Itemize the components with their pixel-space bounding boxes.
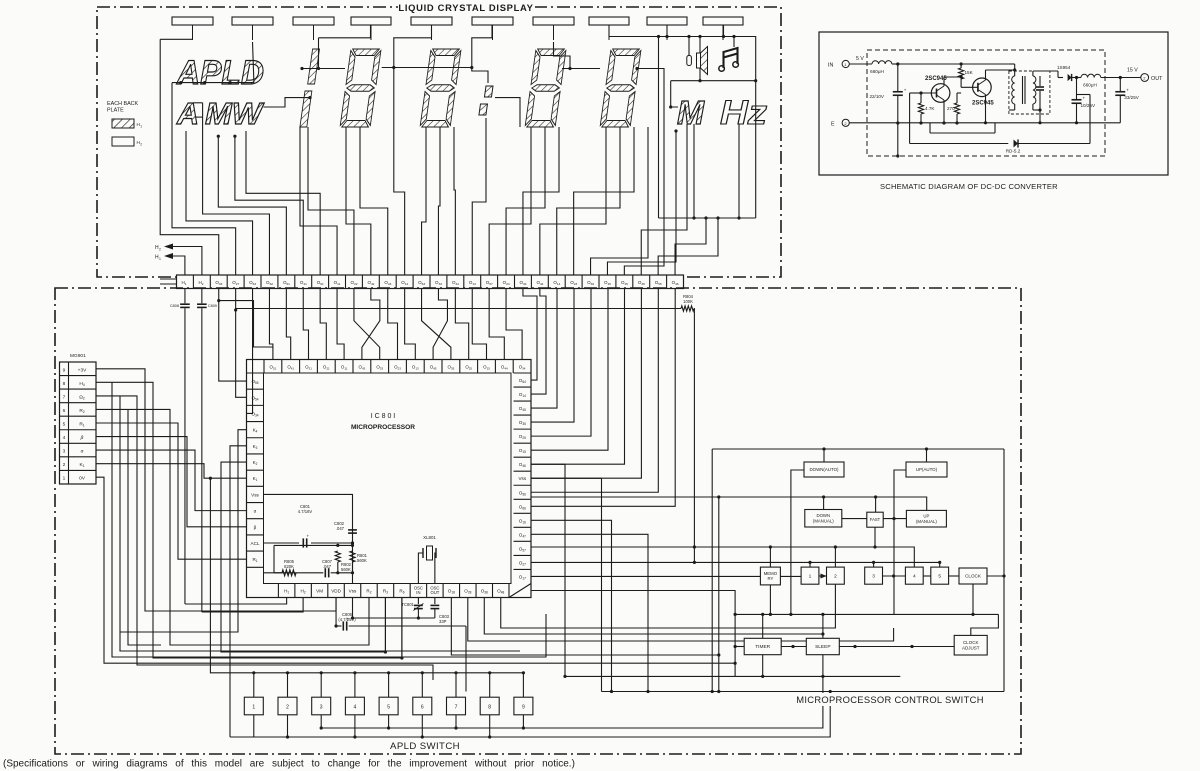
switch SLEEP [806, 638, 839, 654]
wire APLD bottom stub [455, 715, 457, 728]
switch FAST [867, 512, 883, 527]
pin row cell divider [260, 275, 262, 289]
backplate electrode 6 [472, 17, 513, 25]
svg-text:β: β [80, 435, 84, 441]
wire O-row to IC top pin [506, 289, 522, 360]
wire ACL to C801 [264, 542, 300, 544]
IC bottom pin divider [409, 584, 411, 598]
wire electrode 2 stem to APLD bus [253, 42, 254, 83]
svg-text:1: 1 [159, 257, 161, 261]
wire C806 rail drop [465, 626, 467, 692]
wire feedback join [1077, 94, 1091, 96]
wire C1 to bottom rail [897, 96, 899, 124]
svg-text:2: 2 [63, 462, 66, 468]
wire alpha feed [96, 450, 247, 511]
wire SLEEP bottom drop [822, 655, 824, 677]
wire preset top stub [769, 547, 771, 567]
junction [717, 495, 720, 498]
svg-text:22/10V: 22/10V [869, 94, 884, 99]
wire resistor bottoms [337, 562, 339, 573]
svg-text:RD-5.2: RD-5.2 [1006, 149, 1021, 154]
speaker icon [697, 47, 708, 75]
junction [955, 121, 958, 124]
backplate electrode 3 [293, 17, 334, 25]
IC left pin divider [247, 453, 264, 455]
wire TIMER top stub [762, 614, 764, 638]
wire coil to node [892, 63, 898, 65]
junction [233, 135, 236, 138]
svg-text:XL801: XL801 [423, 535, 436, 540]
IC left pin divider [247, 469, 264, 471]
wire L2 to out node [1101, 77, 1121, 79]
wire rail to left col [264, 572, 283, 574]
svg-text:33/25V: 33/25V [1124, 95, 1139, 100]
wire lower loop [929, 123, 931, 133]
wire LCD fanout left cascade [235, 136, 303, 275]
wire main bus under pin row [236, 308, 681, 310]
wire B6 left extension [565, 675, 735, 677]
wire H4 feed [96, 382, 402, 658]
svg-text:4: 4 [354, 704, 357, 710]
wire preset top stub [939, 562, 941, 567]
wire CLOCK right link [987, 575, 1004, 577]
svg-text:+: + [1083, 96, 1086, 101]
wire APLD lower bus A [321, 676, 823, 728]
APLD switch bus [210, 478, 523, 673]
wire digit1 top gap [318, 38, 320, 69]
LCD display outer box [97, 7, 781, 277]
wire between-digit vertical to cell13 [394, 25, 432, 275]
wire diode to coil [1072, 77, 1081, 79]
IC right pin divider [514, 386, 532, 388]
junction [938, 561, 941, 564]
zener diode RD-5.2 feedback [909, 93, 911, 144]
svg-text:Vss: Vss [518, 476, 526, 481]
pin row cell divider [226, 275, 228, 289]
wire preset link 1-2 [819, 575, 827, 577]
wire digit5 bottom [557, 127, 620, 275]
junction [669, 105, 672, 108]
svg-text:Vss: Vss [251, 492, 259, 497]
junction [769, 545, 772, 548]
junction [822, 495, 825, 498]
wire O-row to IC top pin [455, 289, 468, 360]
pin row cell divider [666, 275, 668, 289]
IC bottom pin divider [508, 584, 510, 598]
svg-text:+: + [904, 88, 907, 93]
junction [320, 726, 323, 729]
wire R804 to drop [693, 309, 695, 563]
wire crossing pair B1 [422, 289, 451, 360]
wire O27 drop [235, 289, 237, 311]
svg-text:E: E [831, 122, 835, 128]
IC bottom pin divider [442, 584, 444, 598]
backplate electrode 8 [589, 17, 629, 25]
junction [716, 216, 719, 219]
svg-text:TIMER: TIMER [755, 644, 770, 650]
switch TIMER [744, 638, 781, 654]
wire electrode 1 stem route [160, 38, 192, 40]
svg-text:PLATE: PLATE [107, 108, 124, 114]
svg-text:15K: 15K [965, 70, 974, 75]
svg-text:7: 7 [63, 394, 66, 400]
junction [252, 671, 255, 674]
junction [217, 135, 220, 138]
svg-text:1: 1 [809, 573, 812, 579]
wire left branch down [273, 545, 275, 572]
wire digit4 bottom [506, 127, 545, 275]
APLD switch 1 [244, 697, 263, 715]
pin row cell divider [649, 275, 651, 289]
transformer primary winding [1012, 76, 1015, 104]
pin row cell divider [294, 275, 296, 289]
wire bus B7 [602, 691, 1005, 693]
svg-text:UP(AUTO): UP(AUTO) [916, 467, 938, 472]
wire APLD bottom stub [489, 715, 491, 737]
IC right pin divider [514, 372, 532, 374]
wire colon bottom [472, 118, 486, 275]
IC right pin divider [514, 568, 532, 570]
svg-text:DOWN: DOWN [816, 513, 830, 518]
svg-text:FAST: FAST [870, 517, 881, 522]
svg-text:2: 2 [286, 704, 289, 710]
svg-text:(Specifications or wiring diag: (Specifications or wiring diagrams of th… [3, 759, 575, 770]
IC top pin divider [494, 360, 496, 374]
junction [896, 62, 899, 65]
svg-text:2: 2 [140, 143, 142, 147]
wire digit joint 1-8 [302, 68, 345, 70]
wire IC right pin O16 long [531, 520, 612, 691]
svg-text:10/25V: 10/25V [1081, 103, 1096, 108]
svg-text:SLEEP: SLEEP [815, 644, 830, 650]
junction [657, 35, 660, 38]
capacitor C3 10/25V [1076, 78, 1078, 100]
wire O-row to IC top pin [489, 289, 504, 360]
IC right pin divider [514, 442, 532, 444]
junction [984, 121, 987, 124]
IC bottom pin divider [343, 584, 345, 598]
music note icon [719, 48, 739, 71]
junction [1119, 76, 1122, 79]
junction [286, 671, 289, 674]
wire O-row to IC right pin [531, 289, 608, 451]
backplate electrode 7 [533, 17, 574, 25]
svg-text:9: 9 [522, 704, 525, 710]
wire Q2 emitter down to rail [985, 95, 987, 123]
wire speaker stem [699, 37, 701, 54]
wire SLEEP right to CLOCK ADJUST [839, 646, 954, 648]
pin row cell divider [598, 275, 600, 289]
IC right pin divider [514, 456, 532, 458]
IC left pin divider [247, 518, 264, 520]
wire DOWN(MANUAL) to FAST [842, 518, 867, 520]
wire O-row to IC right pin [531, 289, 658, 493]
junction [1038, 108, 1041, 111]
junction [942, 121, 945, 124]
svg-text:UP: UP [923, 514, 929, 519]
wire LCD fanout left cascade [160, 39, 219, 275]
svg-text:270: 270 [947, 106, 955, 111]
wire nest long bottom a [112, 382, 546, 657]
wire DOWN(AUTO) top stub [823, 449, 825, 462]
junction [960, 75, 963, 78]
IC right pin divider [514, 526, 532, 528]
wire Vss left pin rail [264, 494, 353, 583]
junction [754, 79, 757, 82]
pin row cell divider [328, 275, 330, 289]
wire LCD fanout left cascade [203, 103, 270, 275]
wire B2 drop at left [718, 497, 720, 692]
junction [209, 477, 212, 480]
svg-text:5: 5 [938, 573, 941, 579]
junction [1075, 121, 1078, 124]
junction [960, 62, 963, 65]
connector row divider [60, 469, 97, 471]
wire icon bus top [609, 25, 756, 218]
wire APLD bottom stub [522, 715, 524, 728]
IC right pin divider [514, 540, 532, 542]
wire crossing pair B2 [433, 289, 447, 360]
APLD switch 5 [379, 697, 398, 715]
IC left pin divider [247, 502, 264, 504]
wire O-row to IC right pin [531, 289, 641, 479]
wire UP(AUTO) top stub [926, 449, 928, 462]
IC bottom pin divider [360, 584, 362, 598]
wire O-row to IC right pin [531, 289, 591, 437]
wire APLD top stub [455, 673, 457, 697]
IC top pin divider [263, 360, 265, 374]
wire Q1 emitter to rail [943, 100, 945, 123]
svg-text:TC801: TC801 [401, 602, 414, 607]
svg-text:2: 2 [834, 573, 837, 579]
wire CLOCK ADJUST top stub [971, 614, 999, 635]
wire R2 feed [96, 409, 369, 645]
junction [229, 81, 232, 84]
svg-text:EACH BACK: EACH BACK [107, 101, 139, 107]
junction [698, 79, 701, 82]
wire note stem [733, 37, 735, 48]
junction node [351, 544, 354, 547]
DC-DC inner dashed box [867, 50, 1105, 156]
junction [919, 121, 922, 124]
wire IC Vss line to riser [531, 477, 602, 479]
IC top pin divider [423, 360, 425, 374]
wire long preset line from IC [531, 575, 760, 577]
wire TIMER left link [735, 646, 744, 648]
wire speaker loop [671, 80, 756, 82]
svg-text:+: + [347, 616, 350, 621]
svg-text:MICROPROCESSOR: MICROPROCESSOR [351, 424, 415, 431]
wire O18 route [451, 598, 718, 656]
wire electrode 10 stem [723, 25, 725, 37]
wire UP(AUTO) left drop [894, 470, 906, 614]
svg-text:IN: IN [828, 63, 833, 69]
wire network bottom rail [274, 572, 323, 574]
pin row cell divider [429, 275, 431, 289]
svg-text:A: A [176, 96, 199, 131]
wire A glyph hooks [194, 102, 203, 104]
wire bus B6 [735, 675, 900, 677]
junction [179, 81, 182, 84]
wire electrode 9 stem [666, 25, 668, 37]
wire TIMER bottom drop [762, 655, 764, 677]
connector row divider [60, 388, 97, 390]
backplate electrode 5 [411, 17, 452, 25]
svg-text:C808: C808 [170, 304, 179, 308]
pin row cell divider [243, 275, 245, 289]
switch preset 3 [865, 567, 883, 584]
wire fanout cell25 [607, 131, 676, 275]
wire O28 route [468, 598, 894, 642]
junction [317, 67, 320, 70]
wire K3 nest [230, 446, 247, 737]
pin row cell divider [514, 275, 516, 289]
pin row cell divider [480, 275, 482, 289]
wire crossing pair A2 [362, 289, 380, 360]
wire SLEEP top stub [822, 614, 824, 638]
junction [665, 35, 668, 38]
wire O33 drop [218, 289, 220, 301]
resistor R1 4.7K [920, 101, 922, 103]
junction [1013, 68, 1016, 71]
junction [610, 690, 613, 693]
wire VDD drop [335, 598, 337, 627]
wire O-row to IC right pin [531, 289, 546, 395]
wire bottom rail extension [1077, 122, 1121, 124]
IC left pin divider [247, 534, 264, 536]
IC top pin divider [459, 360, 461, 374]
wire digit4 bottom [523, 127, 559, 275]
junction [353, 671, 356, 674]
backplate electrode 9 [647, 17, 687, 25]
svg-text:MW: MW [205, 96, 265, 131]
junction [873, 545, 876, 548]
svg-text:660μH: 660μH [1083, 83, 1097, 88]
pin row cell divider [632, 275, 634, 289]
svg-text:8: 8 [488, 704, 491, 710]
svg-text:C809: C809 [208, 304, 217, 308]
wire Q2 collector up [985, 70, 987, 80]
pin row cell divider [463, 275, 465, 289]
wire O-row to IC top pin [337, 289, 344, 360]
connector row divider [60, 456, 97, 458]
pin row cell divider [530, 275, 532, 289]
svg-text:SCHEMATIC DIAGRAM OF DC-DC: SCHEMATIC DIAGRAM OF DC-DC CONVERTER [880, 182, 1058, 191]
wire digit3 bottom [454, 127, 455, 275]
wire A-MW row to digit 1 [264, 98, 311, 107]
svg-text:I C 8 0 I: I C 8 0 I [371, 413, 396, 420]
backplate electrode 10 [703, 17, 743, 25]
wire bus B5 [735, 613, 998, 615]
connector row divider [60, 429, 97, 431]
junction [635, 67, 638, 70]
wire R1 top to base line [920, 93, 922, 101]
junction [822, 447, 825, 450]
junction [387, 726, 390, 729]
svg-text:α: α [81, 450, 84, 455]
legend backplate H1 (hatched) [112, 119, 134, 128]
junction [821, 632, 824, 635]
IC left pin divider [247, 566, 264, 568]
svg-text:Vss: Vss [349, 589, 357, 594]
junction [353, 735, 356, 738]
IC left pin divider [247, 372, 264, 374]
wire CLOCK bottom drop [972, 584, 974, 614]
pin row cell divider [361, 275, 363, 289]
wire O-row to IC right pin [523, 289, 537, 381]
IC bottom pin divider [294, 584, 296, 598]
junction [734, 613, 737, 616]
junction [421, 671, 424, 674]
title MICROPROCESSOR CONTROL SWITCH [798, 693, 982, 706]
APLD switch 7 [447, 697, 466, 715]
switch preset 1 [801, 567, 819, 584]
APLD switch 8 [480, 697, 499, 715]
wire O-row to IC top pin [388, 289, 398, 360]
svg-text:+: + [1126, 88, 1129, 93]
wire APLD bottom stub [320, 715, 322, 728]
svg-text:7: 7 [455, 704, 458, 710]
svg-text:+: + [307, 533, 310, 538]
connector row divider [60, 402, 97, 404]
IC top pin divider [441, 360, 443, 374]
IC right pin divider [514, 512, 532, 514]
wire TIMER right link [781, 646, 806, 648]
inductor L2 660uH [1081, 74, 1101, 77]
capacitor C808 on H1 line [184, 289, 186, 304]
IC top pin divider [281, 360, 283, 374]
svg-text:3: 3 [63, 449, 66, 455]
switch UP(AUTO) [906, 462, 947, 477]
wire O17 line from IC [531, 591, 735, 677]
svg-text:4: 4 [63, 435, 66, 441]
svg-text:Hz: Hz [720, 94, 767, 132]
wire icon left vertical [658, 37, 660, 219]
junction [568, 67, 571, 70]
resistor R802 560K [335, 551, 340, 562]
pin row cell divider [192, 275, 194, 289]
svg-text:820K: 820K [284, 564, 294, 569]
wire APLD bottom stub [388, 715, 390, 728]
IC left pin divider [247, 388, 264, 390]
svg-text:OUT: OUT [1151, 76, 1163, 82]
connector row divider [60, 442, 97, 444]
svg-text:IN: IN [416, 590, 420, 595]
wire M bottom b [693, 124, 695, 218]
capacitor C2 smoothing [1039, 76, 1041, 86]
wire MEMORY to preset 1 link [780, 575, 801, 577]
wire B1 right drop [1003, 449, 1005, 692]
wire +3V feed [96, 369, 336, 611]
switch DOWN(AUTO) [804, 462, 844, 477]
APLD switch 9 [514, 697, 533, 715]
transformer T1 dashed box [1009, 71, 1050, 114]
junction [693, 561, 696, 564]
pin row cell divider [564, 275, 566, 289]
wire O-row to IC top pin [405, 289, 416, 360]
pin row cell divider [497, 275, 499, 289]
wire H1 arrow to pin row [173, 256, 185, 275]
wire O-row to IC top pin [269, 289, 272, 360]
svg-text:5 V: 5 V [856, 56, 864, 62]
connector row divider [60, 415, 97, 417]
svg-text:(MANUAL): (MANUAL) [916, 519, 937, 524]
junction [454, 671, 457, 674]
title LIQUID CRYSTAL DISPLAY [398, 0, 535, 13]
wire digit3 bottom [438, 127, 440, 275]
connector MG901 body [60, 362, 97, 484]
wire O33 to IC left O55 [219, 301, 247, 381]
